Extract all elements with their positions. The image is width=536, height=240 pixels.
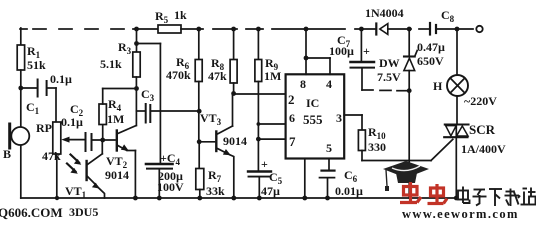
svg-text:555: 555 [303, 112, 323, 127]
svg-text:6: 6 [289, 111, 295, 125]
svg-text:0.47µ: 0.47µ [417, 40, 445, 54]
svg-text:330: 330 [368, 140, 386, 154]
svg-text:0.01µ: 0.01µ [335, 184, 363, 198]
svg-text:7: 7 [289, 134, 296, 149]
svg-text:1M: 1M [264, 69, 281, 83]
svg-text:+: + [363, 44, 370, 58]
svg-text:47k: 47k [42, 149, 61, 163]
svg-text:IC: IC [306, 96, 319, 110]
svg-text:DW: DW [379, 56, 400, 70]
svg-text:SCR: SCR [469, 122, 496, 137]
svg-text:4: 4 [326, 77, 332, 91]
svg-text:B: B [3, 147, 11, 161]
svg-text:5: 5 [326, 141, 332, 155]
svg-text:0.1µ: 0.1µ [61, 115, 83, 129]
svg-text:+: + [261, 157, 268, 171]
svg-text:0.1µ: 0.1µ [50, 72, 72, 86]
svg-text:2: 2 [288, 92, 295, 107]
svg-text:1N4004: 1N4004 [365, 6, 404, 20]
svg-text:H: H [433, 79, 443, 93]
svg-text:~220V: ~220V [464, 94, 497, 108]
svg-text:1A/400V: 1A/400V [461, 142, 506, 156]
svg-text:1M: 1M [107, 112, 124, 126]
svg-text:51k: 51k [27, 58, 46, 72]
svg-text:8: 8 [300, 77, 306, 91]
svg-text:9014: 9014 [223, 134, 247, 148]
svg-text:3DU5: 3DU5 [69, 205, 98, 219]
svg-text:100µ: 100µ [329, 44, 354, 58]
svg-text:470k: 470k [166, 68, 191, 82]
svg-text:RP: RP [36, 121, 52, 135]
svg-text:47k: 47k [208, 69, 227, 83]
svg-text:47µ: 47µ [261, 184, 280, 198]
svg-text:www.eeworm.com: www.eeworm.com [402, 207, 519, 220]
svg-text:3: 3 [336, 111, 342, 125]
svg-text:Q606.COM: Q606.COM [0, 205, 63, 220]
svg-text:7.5V: 7.5V [377, 70, 401, 84]
svg-text:100V: 100V [157, 180, 184, 194]
svg-text:5.1k: 5.1k [100, 57, 122, 71]
svg-text:1k: 1k [174, 8, 187, 22]
svg-text:650V: 650V [417, 54, 444, 68]
svg-text:33k: 33k [206, 184, 225, 198]
svg-text:9014: 9014 [105, 168, 129, 182]
